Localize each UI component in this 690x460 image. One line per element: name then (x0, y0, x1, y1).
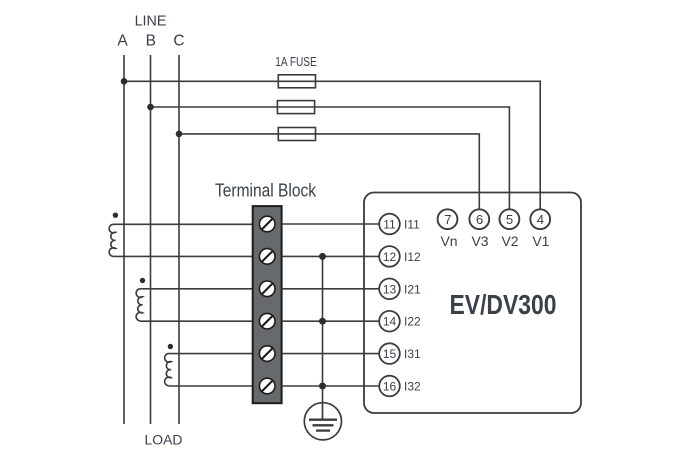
wire A to fuse to V1 (124, 81, 540, 209)
terminal 6 V3 (469, 209, 489, 249)
terminal 15 (379, 343, 421, 364)
CT2 secondary wires (140, 289, 253, 321)
junction I22 (319, 318, 326, 325)
terminal 14 (379, 311, 421, 332)
terminal screw 3 (259, 281, 275, 297)
fuse F2 (277, 101, 314, 114)
svg-text:13: 13 (383, 282, 397, 296)
svg-text:A: A (117, 32, 128, 49)
svg-text:Vn: Vn (440, 233, 457, 249)
fuse F3 (278, 128, 315, 141)
CT3 coil (165, 354, 171, 386)
terminal 5 V2 (500, 209, 520, 249)
svg-text:4: 4 (537, 212, 544, 227)
wire B to fuse to V2 (151, 107, 510, 209)
fuse F1 (278, 75, 315, 88)
terminal 13 (379, 279, 421, 300)
svg-text:LINE: LINE (135, 13, 167, 29)
junction A (121, 78, 128, 85)
wire C to fuse to V3 (179, 134, 479, 210)
terminal screw 1 (259, 216, 275, 232)
wire phase B vertical (150, 55, 152, 424)
svg-text:I12: I12 (404, 250, 421, 264)
CT2 polarity dot (140, 278, 145, 283)
wire block to I31 (282, 353, 379, 355)
wire phase A vertical (123, 55, 125, 424)
svg-text:C: C (173, 32, 184, 49)
CT3 polarity dot (168, 344, 173, 349)
wire block to I21 (282, 288, 379, 290)
terminal 12 (379, 246, 421, 267)
junction I12 (319, 253, 326, 260)
terminal screw 4 (259, 313, 275, 329)
svg-text:I32: I32 (404, 380, 421, 394)
svg-text:7: 7 (444, 212, 451, 227)
svg-text:V3: V3 (471, 233, 488, 249)
earth ground symbol (304, 403, 341, 440)
meter EV/DV300 box (364, 193, 581, 414)
wire block to I11 (282, 223, 379, 225)
wire phase C vertical (178, 55, 180, 424)
CT3 secondary wires (169, 354, 253, 386)
CT2 coil (136, 289, 142, 321)
terminal 16 (379, 376, 421, 397)
svg-text:I22: I22 (404, 315, 421, 329)
svg-text:I31: I31 (404, 347, 421, 361)
junction I32 (319, 383, 326, 390)
svg-text:5: 5 (506, 212, 513, 227)
CT1 secondary wires (113, 224, 253, 256)
terminal 4 V1 (530, 209, 550, 249)
svg-text:12: 12 (383, 250, 397, 264)
svg-text:B: B (146, 32, 156, 49)
wire block to I12 (282, 255, 379, 257)
svg-text:V1: V1 (532, 233, 549, 249)
CT1 polarity dot (113, 213, 118, 218)
wire block to I32 (282, 385, 379, 387)
svg-text:EV/DV300: EV/DV300 (450, 289, 557, 320)
junction C (176, 131, 183, 138)
svg-text:V2: V2 (501, 233, 518, 249)
wire block to I22 (282, 320, 379, 322)
svg-text:11: 11 (383, 218, 396, 232)
ground tie wire (322, 256, 324, 403)
svg-text:I11: I11 (404, 218, 420, 232)
terminal screw 6 (259, 378, 275, 394)
svg-text:Terminal Block: Terminal Block (215, 181, 317, 201)
terminal screw 2 (259, 249, 275, 265)
svg-text:6: 6 (476, 212, 483, 227)
svg-text:15: 15 (383, 347, 397, 361)
terminal block body (253, 206, 282, 403)
junction B (147, 104, 154, 111)
terminal screw 5 (259, 346, 275, 362)
terminal 7 Vn (438, 209, 458, 249)
svg-text:LOAD: LOAD (145, 431, 183, 447)
terminal 11 (379, 214, 420, 235)
svg-text:16: 16 (383, 380, 397, 394)
svg-text:1A FUSE: 1A FUSE (275, 54, 317, 69)
svg-text:14: 14 (383, 315, 397, 329)
svg-text:I21: I21 (404, 282, 421, 296)
CT1 coil (109, 224, 115, 256)
